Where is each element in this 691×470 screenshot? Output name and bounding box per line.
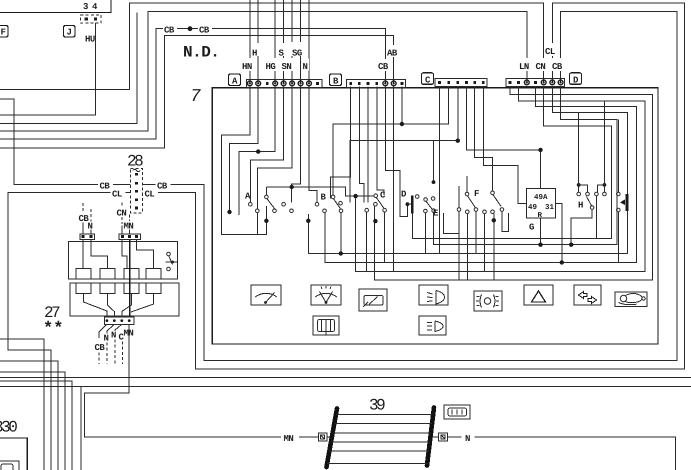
boxed label B [330,74,342,87]
wire loop strip A pin2 to strip D pin2 [230,87,259,213]
svg-text:G: G [529,223,534,233]
wire N from 39 to bottom right [447,437,675,470]
svg-text:F: F [1,28,6,38]
connector HU (dashed, pins of unit) [81,15,102,45]
label CL [544,43,558,57]
wire bus to switch A pivot [265,187,267,195]
svg-text:CN: CN [117,209,127,219]
label MN on wire [281,430,299,445]
switch D (push contact) [401,190,412,214]
svg-text:AB: AB [387,49,398,59]
inner box of 330 [0,461,19,470]
svg-text:N: N [111,331,116,341]
boxed label J [64,26,76,38]
long wire below unit 7 (upper) [0,376,691,378]
switch F [457,189,504,214]
icon headlight (row 2) [419,316,446,335]
svg-text:LN: LN [519,62,529,72]
wire CL from connector 28 to bottom left [8,193,130,470]
svg-text:N.D.: N.D. [183,44,219,62]
svg-text:3: 3 [83,2,88,12]
svg-text:HU: HU [85,35,95,45]
icon inside 330 [1,464,13,470]
connector 27 top-left [80,234,95,240]
wire CN loop: strip D pin5 up, along top, down at x129.5, left edge [0,3,544,90]
icon box near 39 [444,405,470,419]
wire strip B pin3 down [367,87,369,203]
label CB right of 28 [156,179,171,192]
wire loop strip A pin5 to strip D pin6 [250,87,283,203]
switch inside 27 [166,252,178,271]
wire strip C pin5 to switch F [475,87,493,192]
svg-text:CL: CL [112,190,122,200]
wire strip B pin5 to switch D [385,87,407,217]
svg-text:HG: HG [266,62,276,72]
junction dot [456,139,460,143]
icon turn arrows [574,285,601,305]
riser with junction [307,214,309,254]
component box top-left (unit with pins 3,4) [0,0,111,13]
wire strip C pin1 to switch E pivot [439,87,441,254]
wire CL loop: strip D pin6 up, right edge down, bottom to connector 28 [143,3,685,369]
label CL right of 28 [143,187,158,200]
wire from box area down at x137 to left edge [0,13,137,124]
wire strip C pin4 to relay G [466,87,540,189]
connector 27 top-right [119,234,140,240]
wire strip C pin6 to relay G input [483,87,526,204]
junction dot under switch F [492,218,496,222]
svg-text:CL: CL [545,47,555,57]
label HN [241,58,255,72]
switch H [577,101,607,211]
wire loop strip A pin6 to strip D pin7 [257,87,292,210]
icon horn [615,292,647,307]
wire strip B pin7 to bus [401,87,403,125]
long wire below unit 7 (lower) [0,385,691,387]
wire strip A pin7 to switch A [292,87,301,203]
connector strip C [435,79,487,87]
icon low beam [419,285,448,305]
icon hazard [524,285,553,305]
wire relay G output down [555,204,561,263]
svg-text:31: 31 [545,203,555,212]
wires strip A pins up to top edge [249,0,251,83]
contact rectangles lower row [76,283,161,293]
svg-text:F: F [474,189,479,199]
wires inside 27 upper box [82,239,84,268]
icon wiper [251,285,281,305]
switch B [315,193,343,213]
heated rear window 39 left bar [327,409,338,468]
heating element lines [327,414,433,463]
wire stub down from long wire [80,386,82,470]
wire ND line to strip B pin6 (AB) [0,36,394,148]
dashed stub and label CN above connector 27 [117,203,127,235]
boxed label F [0,26,8,38]
svg-text:49: 49 [528,203,538,212]
connector strip B [346,79,405,87]
riser under switch A [256,212,258,234]
svg-text:330: 330 [0,419,17,437]
bus above switches [266,187,374,196]
wire MN from 27 to heated window 39 [85,324,319,437]
label MN below 27 [124,329,134,339]
label CB left of dot [163,23,177,36]
label CB left of 28 [98,179,113,192]
boxed label D [570,73,582,86]
switch C [365,191,387,224]
svg-text:HN: HN [242,62,252,72]
junction dot [538,243,542,247]
connector 28 (dashed) [130,168,142,213]
junction dot [538,148,542,152]
corner wire bundle bottom-left 1 [0,339,44,470]
switch A [245,192,293,213]
corner wire bundle bottom-left 4 [0,381,72,470]
wire strip A pin8 to switch B [309,87,317,203]
svg-text:CB: CB [199,26,210,36]
svg-text:28: 28 [127,153,143,171]
svg-text:N: N [88,221,93,231]
svg-text:N: N [303,62,308,72]
icon rear defrost (row 2) [313,316,339,335]
wire CB-CB horizontal to strip B pin5 [0,29,385,139]
icon rear fog [474,291,502,311]
svg-text:CL: CL [145,190,155,200]
svg-text:CB: CB [552,62,563,72]
wire strip B pin6 to switch E [393,87,395,272]
junction dot [256,149,260,153]
wire strip B pin4 to switch C pivot [377,87,384,196]
svg-text:49A: 49A [534,193,548,202]
contact rectangles upper row [76,268,161,279]
wire strip B pin1 to switch B [331,87,351,199]
junction dot on CB-CB wire [188,26,193,31]
svg-text:SN: SN [282,62,292,72]
svg-text:J: J [67,28,72,38]
wire loop under switch F right [493,214,495,281]
connector strip D [506,79,565,87]
label N [302,59,309,73]
label CB on strip B pin5 wire [377,59,391,72]
junction dot [400,122,404,126]
relay unit 27 lower box [70,283,179,316]
risers under switch B [324,212,326,262]
icon washer [311,285,341,305]
svg-text:H: H [578,201,583,211]
svg-text:CB: CB [100,182,111,192]
label N on wire [462,430,475,445]
junction dot near switch A [227,210,231,214]
risers under switch C [384,212,386,262]
U link under switch F right [502,211,509,231]
junction dot [290,185,294,189]
label CN [535,58,549,72]
label LN [518,58,532,72]
label C below 27 [119,333,125,365]
wire strip C pin2 bus to switch B pivot [333,87,449,196]
wire and label CB below 27 [95,324,107,364]
boxed label C [422,73,434,86]
connector right of 39 [432,433,447,441]
label AB on strip B pin6 wire [386,45,400,59]
svg-text:CB: CB [164,26,175,36]
wire HU down to left edge [0,23,95,115]
wire MN through 27 [129,239,131,317]
relay G (49A) [527,189,556,233]
svg-text:CB: CB [378,62,389,72]
svg-text:SG: SG [292,49,302,59]
wire loop under switch F [595,196,597,239]
heated rear window 39 right bar [427,408,434,466]
wire relay G bottom [540,218,542,245]
corner wire bundle bottom-left 3 [0,372,65,470]
corner wire bundle bottom-left 2 [0,361,58,470]
wire loop strip A pin4 to strip D pin4 [239,87,275,216]
label H [252,43,259,59]
svg-text:CN: CN [536,62,546,72]
label S [278,43,285,59]
wire LN loop: strip D pin3 up, along top, down at x148, to left edge [0,12,527,132]
svg-text:R: R [538,212,543,220]
boxed label A [229,74,241,87]
wire and label N below 27 [104,324,115,364]
label CB right of dot [198,23,212,36]
svg-text:N: N [465,434,470,444]
label SG [291,42,305,59]
svg-text:**: ** [43,320,63,339]
connector 27 bottom [105,317,135,324]
relay unit 27 upper box [69,241,178,279]
dashed stub and label MN above connector 27 [124,215,134,235]
svg-text:MN: MN [124,221,134,231]
icon rear wiper [359,289,387,311]
component box 330 [0,438,27,470]
wires inside 27 lower box [84,294,107,317]
switch E [415,141,439,219]
svg-text:H: H [252,49,257,59]
label HG [265,58,279,72]
risers under switch E [424,213,426,254]
riser under switch H [571,209,592,245]
connector left of 39 [318,433,330,441]
connector strip A [246,79,322,87]
dashed stub and label CB above connector 27 [79,203,90,234]
junction dot on U leg [264,219,268,223]
wire CB from left edge into connector 28 [0,99,130,185]
svg-text:MN: MN [284,434,294,444]
horn contact (right) [617,120,627,263]
junction dot [560,260,564,264]
label CB [551,58,565,72]
wire strip B pin2 to switch C [359,87,364,203]
label CL left of 28 [111,187,126,200]
wire loop strip D pin5 lower [412,87,611,239]
wire strip C pin3 to switch B [350,87,458,203]
wire and label N below 27 (second) [111,324,122,364]
svg-text:CB: CB [157,182,168,192]
risers under switch F [458,211,460,280]
svg-text:MN: MN [124,329,134,339]
label SN [281,58,295,72]
switch unit 7 outline [212,88,658,344]
svg-text:CB: CB [95,343,106,353]
svg-text:N: N [104,334,109,344]
wire CB loop: strip D pin7 up, right side down, bottom to connector 28 [143,12,677,361]
svg-text:39: 39 [369,397,385,415]
dashed stub and label N above connector 27 [88,209,93,234]
U link under switch E [444,213,460,234]
wire loop strip A pin1 to strip D pin1 [221,87,266,235]
